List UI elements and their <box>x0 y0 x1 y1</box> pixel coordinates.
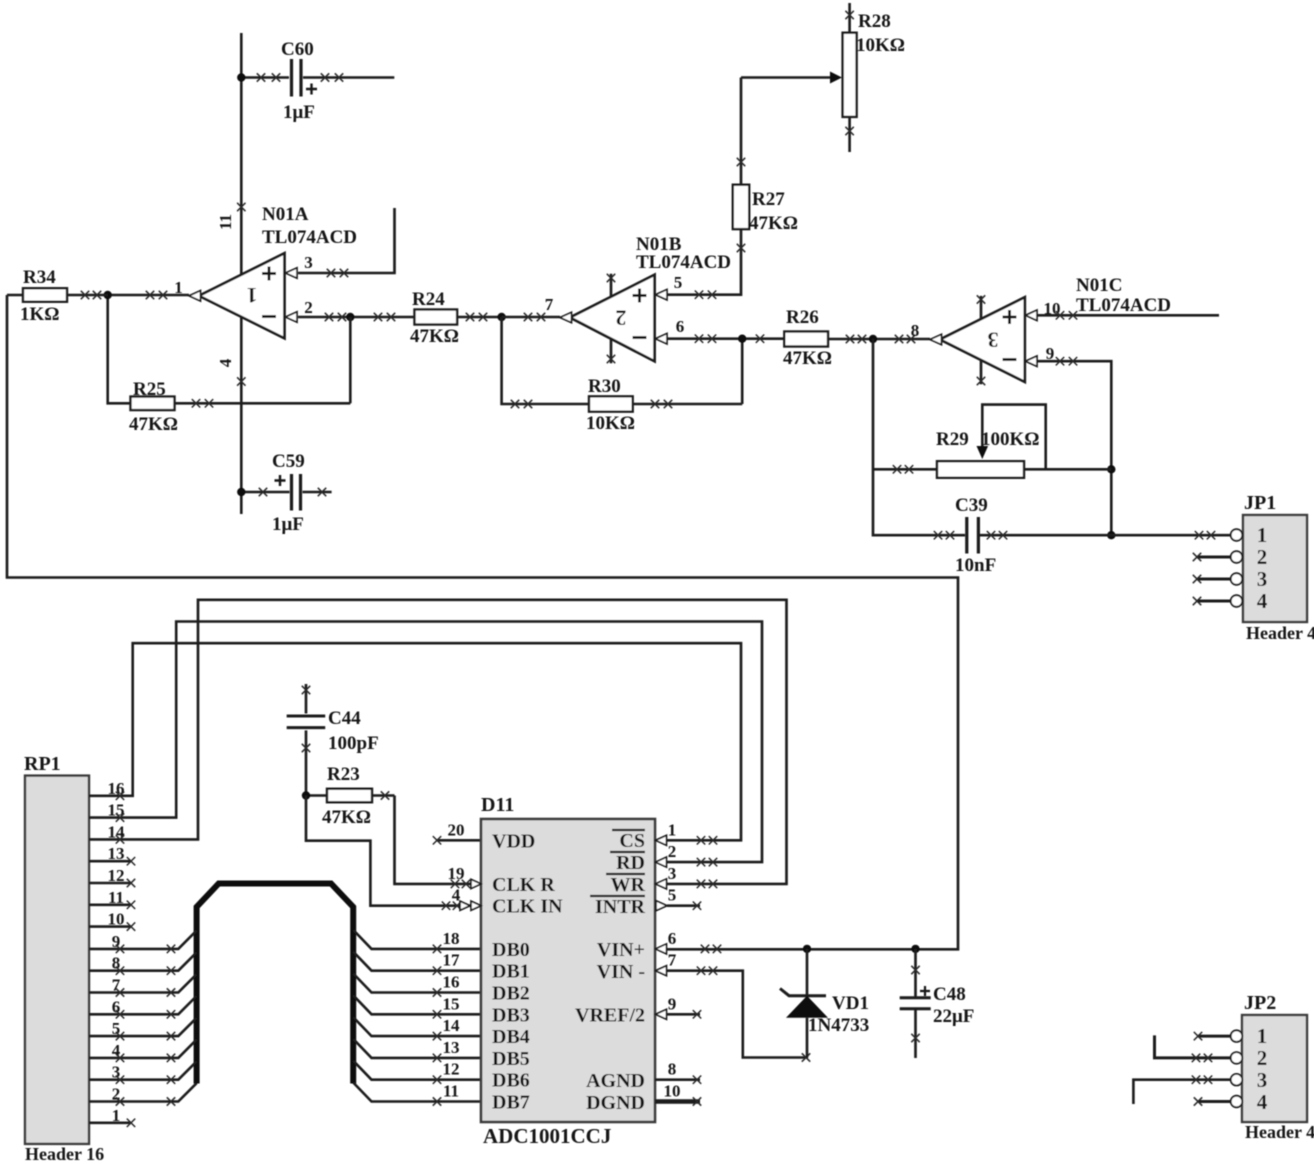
output arrow INTR <box>656 901 667 911</box>
capacitor C59 <box>241 451 331 535</box>
svg-text:13: 13 <box>443 1038 460 1057</box>
node: pin9 rail / R29 junction <box>1107 465 1115 473</box>
RP1 pin 5 number label <box>112 1019 121 1038</box>
node: R24 output / R30 feedback junction <box>497 313 505 321</box>
node: R34 / output junction <box>104 291 112 299</box>
node: C59 / power rail junction <box>237 488 245 496</box>
svg-text:3: 3 <box>1257 567 1268 591</box>
label N01A designator <box>262 204 357 248</box>
svg-text:4: 4 <box>216 358 235 367</box>
svg-text:N01C: N01C <box>1076 275 1122 296</box>
IC right pin number 10 <box>664 1082 681 1101</box>
svg-text:3: 3 <box>988 328 999 353</box>
svg-text:3: 3 <box>304 253 313 272</box>
wire: R26 to N01C input pin 8 <box>873 335 930 343</box>
pin number 5 of N01B <box>674 273 683 292</box>
svg-text:DB1: DB1 <box>492 961 530 983</box>
RP1 pin 13 number label <box>108 844 125 863</box>
IC pin name DB4 <box>492 1026 530 1048</box>
svg-text:TL074ACD: TL074ACD <box>262 227 357 248</box>
wire: R27 top to R28 wiper arrow <box>741 76 832 79</box>
connector JP2 Header 4 <box>1242 992 1314 1142</box>
node: C60 / power rail junction <box>237 73 245 81</box>
capacitor C48 (electrolytic) <box>900 949 975 1058</box>
op-amp N01A input arrow pin 2 <box>286 312 298 322</box>
svg-text:R28: R28 <box>858 11 891 32</box>
RP1 pin 14 number label <box>108 822 126 841</box>
op-amp N01B input arrow pin 6 <box>656 334 668 344</box>
svg-text:47KΩ: 47KΩ <box>410 326 459 347</box>
wire: RP1 pin 11 stub <box>89 901 135 909</box>
connector JP1 Header 4 <box>1243 492 1314 643</box>
zener diode VD1 1N4733 <box>780 949 869 1058</box>
svg-text:8: 8 <box>668 1060 677 1079</box>
wire: DGND stub (thick) <box>655 1097 701 1105</box>
node: C44 / R23 junction <box>302 791 310 799</box>
pin number 17 label <box>443 951 461 970</box>
resistor R30 <box>511 376 742 434</box>
svg-text:R23: R23 <box>327 764 360 785</box>
input arrow VIN- <box>656 966 667 976</box>
svg-text:CLK R: CLK R <box>492 874 555 896</box>
wire: RP1 pin 1 stub <box>89 1119 135 1127</box>
pin number 7 of N01B <box>545 295 554 314</box>
wire: N01C power stub <box>977 295 985 385</box>
wire: N01B pin5 to R27 <box>667 229 745 299</box>
node: VIN+ / C48 junction <box>911 945 919 953</box>
JP2 pin 2 circle and wire bending up <box>1155 1035 1268 1070</box>
op-amp N01C input arrow pin 9 <box>1026 356 1038 366</box>
svg-text:18: 18 <box>443 929 460 948</box>
wire: bus to ADC DB3 (pin 15) <box>353 995 481 1018</box>
JP1 pin 2 circle and stub <box>1193 545 1267 569</box>
svg-text:6: 6 <box>668 929 677 948</box>
svg-text:VIN -: VIN - <box>597 961 645 983</box>
RP1 pin 10 number label <box>108 910 125 929</box>
IC right pin number 1 <box>668 820 677 839</box>
IC pin name DB2 <box>492 983 530 1005</box>
pin number 12 label <box>443 1060 460 1079</box>
wire: VREF/2 stub <box>667 1010 701 1018</box>
resistor R34 <box>7 267 108 325</box>
label N01B designator <box>636 234 731 273</box>
svg-text:100KΩ: 100KΩ <box>981 429 1040 450</box>
svg-text:JP1: JP1 <box>1244 492 1276 514</box>
IC pin name VDD <box>492 830 535 852</box>
pin number 1 of N01A <box>174 278 183 297</box>
wire: VIN- to VD1 anode <box>667 967 810 1062</box>
svg-text:7: 7 <box>545 295 554 314</box>
svg-text:16: 16 <box>443 973 460 992</box>
svg-text:10: 10 <box>664 1082 681 1101</box>
svg-text:47KΩ: 47KΩ <box>749 213 798 234</box>
IC pin name AGND <box>586 1070 645 1092</box>
svg-text:5: 5 <box>668 886 677 905</box>
IC right pin number 7 <box>668 951 677 970</box>
wire: bus to ADC DB7 (pin 11) <box>353 1083 481 1106</box>
op-amp U1A N01A triangle <box>199 253 285 338</box>
resistor R26 <box>783 307 873 369</box>
pin number 3 of N01A <box>304 253 313 272</box>
wire: bus to ADC DB2 (pin 16) <box>353 974 481 997</box>
svg-text:C44: C44 <box>328 708 361 729</box>
svg-text:RD: RD <box>616 852 645 874</box>
svg-text:Header 4: Header 4 <box>1245 1122 1314 1142</box>
RP1 pin 11 number label <box>108 888 124 907</box>
pin number 2 of N01A <box>304 298 313 317</box>
svg-text:9: 9 <box>668 994 677 1013</box>
svg-text:Header 4: Header 4 <box>1246 623 1314 643</box>
wire: N01A pin2 wire to R24 <box>298 313 415 321</box>
svg-text:6: 6 <box>676 317 685 336</box>
wire: AGND stub <box>655 1076 701 1084</box>
wire: N01A power rail vertical <box>237 33 245 514</box>
svg-text:VREF/2: VREF/2 <box>575 1005 645 1027</box>
svg-text:3: 3 <box>668 864 677 883</box>
input arrow VIN+ <box>656 944 667 954</box>
svg-text:TL074ACD: TL074ACD <box>1076 295 1171 316</box>
wire: feedback left rail down to R29 and C39 line <box>873 339 965 535</box>
wire: N01C pin10 input wire <box>1037 311 1219 319</box>
wire: RP1 pin 12 stub <box>89 879 135 887</box>
node: N01A pin2 feedback junction <box>346 313 354 321</box>
svg-text:11: 11 <box>443 1082 459 1101</box>
svg-text:12: 12 <box>443 1060 460 1079</box>
wire: feedback from pin7 node down to R30 <box>502 317 589 404</box>
wire: R23 to ADC CLK R (pin 19) <box>395 796 482 889</box>
svg-text:R24: R24 <box>412 289 445 310</box>
IC pin name VIN+ <box>597 939 645 961</box>
svg-text:Header 16: Header 16 <box>25 1144 104 1164</box>
IC pin name CS (overline) <box>612 830 645 852</box>
IC pin name RD (overline) <box>610 852 645 874</box>
pin number 6 of N01B <box>676 317 685 336</box>
IC pin name DB0 <box>492 939 530 961</box>
IC right pin number 3 <box>668 864 677 883</box>
pin number 4 of N01A (rotated) <box>216 358 235 367</box>
wire: bus to ADC DB5 (pin 13) <box>353 1039 481 1062</box>
svg-text:1μF: 1μF <box>283 102 315 123</box>
double arrow CLK IN <box>460 901 481 910</box>
wire: bus to ADC DB4 (pin 14) <box>353 1017 481 1040</box>
svg-text:C48: C48 <box>933 984 966 1005</box>
wire: N01C pin9 down to R29/C39 <box>1037 357 1111 535</box>
svg-text:47KΩ: 47KΩ <box>783 348 832 369</box>
IC right pin number 5 <box>668 886 677 905</box>
input arrow CS <box>656 835 667 845</box>
svg-text:DB7: DB7 <box>492 1092 530 1114</box>
wire: C44 node to ADC CLK IN (pin 4) <box>306 796 481 910</box>
resistor R23 <box>306 764 395 828</box>
node: VIN+ / VD1 junction <box>803 945 811 953</box>
svg-text:14: 14 <box>443 1016 461 1035</box>
wire: input node down to R25 <box>108 295 131 403</box>
RP1 pin 6 number label <box>112 997 121 1016</box>
op-amp N01B input arrow pin 5 <box>656 290 668 300</box>
svg-text:DB6: DB6 <box>492 1070 530 1092</box>
clock arrow CLK R <box>471 879 481 888</box>
pin number 8 of N01C <box>911 321 920 340</box>
IC pin name DGND <box>586 1092 645 1114</box>
svg-text:N01A: N01A <box>262 204 309 225</box>
pin number 18 label <box>443 929 460 948</box>
svg-text:DB2: DB2 <box>492 983 530 1005</box>
svg-text:8: 8 <box>911 321 920 340</box>
wire: RP1 pin 7 to bus <box>89 974 197 997</box>
svg-text:10KΩ: 10KΩ <box>586 413 635 434</box>
pin number 11 of N01A (rotated) <box>216 214 235 230</box>
JP2 pin 1 circle and stub <box>1194 1024 1267 1048</box>
svg-text:R29: R29 <box>936 429 969 450</box>
wire: bus to ADC DB0 (pin 18) <box>353 930 481 953</box>
node: pin9 rail / C39 junction <box>1107 531 1115 539</box>
svg-text:DGND: DGND <box>586 1092 645 1114</box>
wire: INTR stub <box>667 902 701 910</box>
pin number 10 of N01C <box>1044 299 1061 318</box>
svg-text:20: 20 <box>448 820 465 839</box>
svg-text:DB3: DB3 <box>492 1004 530 1026</box>
RP1 pin 2 number label <box>112 1085 121 1104</box>
IC left pin number 20 <box>448 820 465 839</box>
IC pin name DB3 <box>492 1004 530 1026</box>
op-amp N01A output arrow pin 1 <box>189 291 201 301</box>
svg-text:R34: R34 <box>23 267 56 288</box>
op-amp N01A input arrow pin 3 <box>286 268 298 278</box>
svg-text:10KΩ: 10KΩ <box>856 35 905 56</box>
IC right pin number 9 <box>668 994 677 1013</box>
wire: bus to ADC DB1 (pin 17) <box>353 952 481 975</box>
svg-text:3: 3 <box>1257 1068 1268 1092</box>
wire: N01A output to R34 node <box>108 291 189 299</box>
svg-text:RP1: RP1 <box>24 753 61 775</box>
RP1 pin 8 number label <box>112 954 121 973</box>
wire: RP1 pin 13 stub <box>89 857 135 865</box>
wire: RP1 pin 3 to bus <box>89 1061 197 1084</box>
wire: R30 up to N01B pin 6 node <box>741 339 744 404</box>
svg-text:2: 2 <box>1257 545 1268 569</box>
capacitor C60 <box>241 39 394 123</box>
wire: RP1 pin 2 to bus <box>89 1083 197 1106</box>
potentiometer R29 <box>873 405 1111 478</box>
wire: bus to ADC DB6 (pin 12) <box>353 1061 481 1084</box>
wire: VIN+ ticks <box>701 945 721 953</box>
svg-text:AGND: AGND <box>586 1070 645 1092</box>
pin number 15 label <box>443 994 460 1013</box>
svg-text:2: 2 <box>668 842 677 861</box>
JP1 pin 1 circle <box>1231 523 1268 547</box>
wire: net RP1-14 to ADC WR <box>89 600 787 888</box>
wire: N01B power stub <box>607 274 615 363</box>
IC pin name VIN- <box>597 961 645 983</box>
input arrow WR <box>656 879 667 889</box>
svg-text:C59: C59 <box>272 451 305 472</box>
JP1 pin 4 circle and stub <box>1193 589 1268 613</box>
svg-text:1: 1 <box>174 278 183 297</box>
wire: RP1 pin 5 to bus <box>89 1018 197 1041</box>
svg-text:CS: CS <box>619 830 645 852</box>
svg-text:1: 1 <box>1257 1024 1268 1048</box>
svg-text:19: 19 <box>448 864 465 883</box>
IC pin name CLK R <box>492 874 555 896</box>
svg-text:VD1: VD1 <box>832 993 869 1014</box>
wire: RP1 pin 4 to bus <box>89 1040 197 1063</box>
node: pin6 / R30 feedback junction <box>738 335 746 343</box>
svg-text:11: 11 <box>216 214 235 230</box>
svg-text:ADC1001CCJ: ADC1001CCJ <box>483 1124 611 1148</box>
IC right pin number 8 <box>668 1060 677 1079</box>
IC D11 ADC1001CCJ body <box>481 794 655 1148</box>
svg-text:D11: D11 <box>481 794 514 816</box>
op-amp N01B output arrow pin 7 <box>560 312 572 322</box>
svg-text:R26: R26 <box>786 307 819 328</box>
JP1 pin 3 circle and stub <box>1193 567 1267 591</box>
op-amp N01C output arrow pin 8 <box>930 334 942 344</box>
svg-text:47KΩ: 47KΩ <box>322 807 371 828</box>
wire: N01B pin6 to R26 <box>667 335 784 343</box>
svg-text:C60: C60 <box>281 39 314 60</box>
IC pin name DB7 <box>492 1092 530 1114</box>
RP1 pin 4 number label <box>112 1041 121 1060</box>
wire: signal from R34 left down and across to VIN+ (net to ADC) <box>7 295 958 949</box>
IC right pin number 2 <box>668 842 677 861</box>
svg-text:INTR: INTR <box>595 896 646 918</box>
wire: RP1 pin 6 to bus <box>89 996 197 1019</box>
IC pin name VREF/2 <box>575 1005 645 1027</box>
node: N01C pin8 / feedback junction <box>869 335 877 343</box>
resistor R24 <box>410 289 502 347</box>
JP2 pin 3 circle and wire bending down <box>1133 1068 1267 1104</box>
RP1 pin 9 number label <box>112 932 121 951</box>
svg-text:1KΩ: 1KΩ <box>20 304 60 325</box>
svg-text:R30: R30 <box>588 376 621 397</box>
wire: RP1 pin 9 to bus <box>89 931 197 954</box>
svg-text:4: 4 <box>1257 589 1268 613</box>
wire: R24 junction to N01B input pin 7 <box>502 313 560 321</box>
svg-text:4: 4 <box>1257 1090 1268 1114</box>
svg-text:5: 5 <box>674 273 683 292</box>
svg-text:10nF: 10nF <box>955 555 996 576</box>
IC pin name DB5 <box>492 1048 530 1070</box>
RP1 pin 15 number label <box>108 801 125 820</box>
capacitor C39 <box>934 495 1231 576</box>
svg-text:1: 1 <box>1257 523 1268 547</box>
svg-text:15: 15 <box>443 994 460 1013</box>
IC pin name CLK IN <box>492 896 563 918</box>
RP1 pin 7 number label <box>112 976 121 995</box>
svg-text:1: 1 <box>247 283 258 308</box>
svg-text:VIN+: VIN+ <box>597 939 645 961</box>
IC pin name DB6 <box>492 1070 530 1092</box>
resistor R27 (vertical) <box>733 78 798 235</box>
IC pin name DB1 <box>492 961 530 983</box>
svg-text:17: 17 <box>443 951 461 970</box>
svg-text:R27: R27 <box>752 189 785 210</box>
wire: net RP1-16 to ADC CS <box>89 643 741 844</box>
svg-text:CLK IN: CLK IN <box>492 896 563 918</box>
svg-text:22μF: 22μF <box>933 1006 974 1027</box>
IC left pin number 19 <box>448 864 465 883</box>
svg-text:1μF: 1μF <box>272 514 304 535</box>
label N01C designator <box>1076 275 1171 316</box>
RP1 pin 12 number label <box>108 866 125 885</box>
svg-text:DB4: DB4 <box>492 1026 530 1048</box>
svg-text:R25: R25 <box>133 379 166 400</box>
svg-text:DB5: DB5 <box>492 1048 530 1070</box>
wire: feedback vertical from pin2 to R25 <box>349 317 352 403</box>
IC right pin number 6 <box>668 929 677 948</box>
svg-text:2: 2 <box>616 305 627 330</box>
svg-text:VDD: VDD <box>492 830 535 852</box>
svg-text:C39: C39 <box>955 495 988 516</box>
potentiometer R28 (vertical) <box>843 3 905 152</box>
capacitor C44 (vertical) <box>287 684 379 796</box>
svg-text:TL074ACD: TL074ACD <box>636 252 731 273</box>
pin number 13 label <box>443 1038 460 1057</box>
connector RP1 Header 16 <box>24 753 104 1164</box>
wire: VDD stub pin 20 <box>433 836 481 844</box>
resistor R25 <box>129 379 350 435</box>
pin number 11 label <box>443 1082 459 1101</box>
pin number 14 label <box>443 1016 461 1035</box>
svg-text:100pF: 100pF <box>328 733 379 754</box>
svg-text:2: 2 <box>1257 1046 1268 1070</box>
pin number 9 of N01C <box>1046 344 1055 363</box>
IC left pin number 4 <box>452 886 461 905</box>
svg-text:7: 7 <box>668 951 677 970</box>
potentiometer R28 wiper arrow <box>830 72 842 84</box>
IC pin name INTR (overline) <box>590 896 646 918</box>
op-amp U1C N01C triangle <box>940 297 1025 382</box>
RP1 pin 1 number label <box>112 1106 121 1125</box>
wire: N01A pin3 wire with stub up <box>298 208 395 277</box>
op-amp N01C input arrow pin 10 <box>1026 310 1038 320</box>
data bus (thick) <box>197 884 354 1084</box>
wire: net RP1-15 to ADC RD <box>89 622 762 867</box>
wire: RP1 pin 8 to bus <box>89 952 197 975</box>
svg-text:2: 2 <box>304 298 313 317</box>
RP1 pin 16 number label <box>108 779 125 798</box>
svg-text:1: 1 <box>668 820 677 839</box>
op-amp U1B N01B triangle <box>570 275 655 362</box>
pin number 16 label <box>443 973 460 992</box>
input arrow RD <box>656 857 667 867</box>
RP1 pin 3 number label <box>112 1063 121 1082</box>
svg-text:JP2: JP2 <box>1244 992 1276 1014</box>
svg-text:1N4733: 1N4733 <box>808 1015 869 1036</box>
svg-text:WR: WR <box>611 874 646 896</box>
input arrow VREF/2 <box>656 1009 667 1019</box>
svg-text:DB0: DB0 <box>492 939 530 961</box>
IC pin name WR (overline) <box>606 874 646 896</box>
svg-text:47KΩ: 47KΩ <box>129 414 178 435</box>
JP2 pin 4 circle and stub <box>1194 1090 1268 1114</box>
wire: RP1 pin 10 stub <box>89 922 135 930</box>
